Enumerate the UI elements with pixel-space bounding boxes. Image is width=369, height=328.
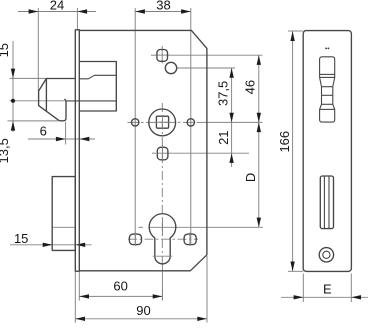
svg-text:15: 15 xyxy=(0,43,11,57)
svg-text:90: 90 xyxy=(136,303,150,318)
svg-text:D: D xyxy=(243,173,258,182)
svg-text:13,5: 13,5 xyxy=(0,138,11,163)
svg-text:24: 24 xyxy=(50,0,64,13)
svg-text:37,5: 37,5 xyxy=(215,81,230,106)
svg-text:21: 21 xyxy=(216,130,231,144)
svg-text:166: 166 xyxy=(277,131,292,153)
svg-text:15: 15 xyxy=(14,231,28,246)
svg-text:60: 60 xyxy=(113,278,127,293)
svg-text:E: E xyxy=(323,281,332,296)
svg-text:38: 38 xyxy=(156,0,170,13)
svg-text:6: 6 xyxy=(40,124,47,139)
svg-text:46: 46 xyxy=(242,80,257,94)
